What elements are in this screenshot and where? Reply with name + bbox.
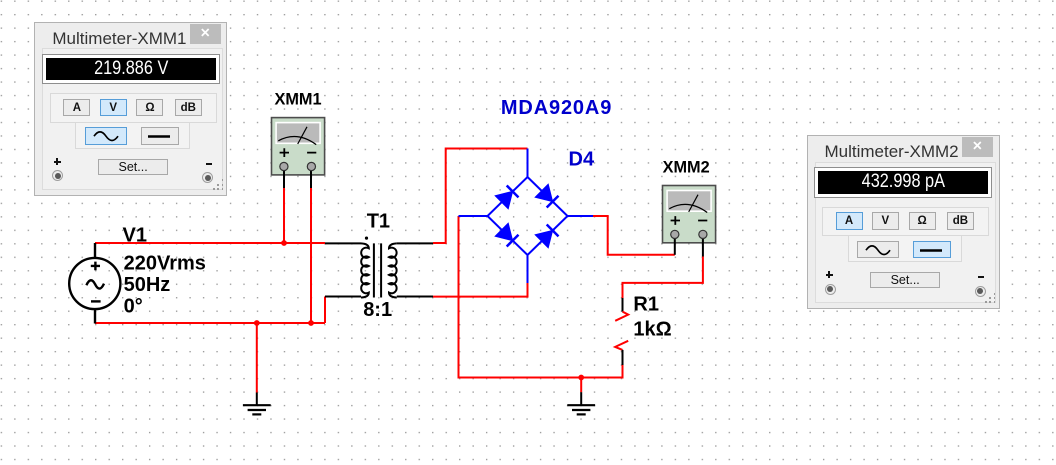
junction node at XMM1 - bbox=[308, 320, 314, 326]
wire: ground stub 2 bbox=[580, 378, 582, 393]
svg-text:50Hz: 50Hz bbox=[124, 274, 171, 296]
svg-text:MDA920A9: MDA920A9 bbox=[501, 97, 612, 119]
diode top-left of D4 bbox=[495, 191, 512, 208]
T1 primary coil bbox=[361, 243, 369, 297]
multimeter icon XMM2 bbox=[663, 186, 716, 257]
wire: V1 bottom rail to transformer primary bottom bbox=[95, 297, 325, 324]
bridge rectifier D4 bbox=[459, 149, 594, 284]
pin: XMM2 + bbox=[674, 236, 676, 255]
wire: bridge bottom to transformer secondary bottom bbox=[433, 283, 528, 297]
pin: T1 secondary top bbox=[397, 242, 433, 244]
pin: D4 left bbox=[459, 215, 488, 217]
resistor R1 bbox=[615, 298, 628, 365]
wire: transformer secondary top to bridge top bbox=[433, 149, 528, 244]
ac source V1 bbox=[69, 243, 120, 324]
pin: T1 primary bottom bbox=[325, 296, 361, 298]
pin: D4 bottom bbox=[527, 255, 529, 283]
pin: R1 bottom stub bbox=[622, 350, 624, 365]
wire: XMM1 - probe bbox=[310, 188, 312, 323]
svg-text:XMM2: XMM2 bbox=[663, 159, 710, 177]
wire: V1 top to transformer primary (net 1) bbox=[95, 242, 325, 244]
transformer T1 bbox=[325, 243, 433, 297]
T1 core bbox=[374, 243, 381, 297]
svg-text:8:1: 8:1 bbox=[363, 299, 392, 321]
diode bottom-right of D4 bbox=[535, 230, 552, 247]
wire: ground stub at bottom rail bbox=[256, 323, 258, 393]
pin: XMM2 - bbox=[702, 236, 704, 257]
junction node at XMM1 + bbox=[281, 240, 287, 246]
diode top-right of D4 bbox=[535, 184, 552, 201]
pin: XMM1 + bbox=[283, 168, 285, 188]
wire: XMM1 + probe bbox=[283, 188, 285, 243]
pin: XMM1 - bbox=[310, 168, 312, 188]
wire: bridge left (minus) down to bottom DC rail to R1 bottom bbox=[459, 216, 623, 378]
pin: T1 secondary bottom bbox=[397, 296, 433, 298]
svg-text:V1: V1 bbox=[123, 225, 147, 247]
diode bottom-left of D4 bbox=[495, 223, 512, 240]
svg-text:1kΩ: 1kΩ bbox=[633, 319, 671, 341]
pin: D4 top bbox=[527, 149, 529, 178]
junction node at ground 2 bbox=[578, 375, 584, 381]
wire: XMM2 - down to R1 top bbox=[623, 257, 703, 299]
R1 zigzag bottom (red) bbox=[615, 341, 628, 350]
pin: D4 right bbox=[568, 215, 594, 217]
T1 polarity dot bbox=[365, 237, 368, 240]
T1 secondary coil bbox=[389, 243, 397, 297]
svg-text:220Vrms: 220Vrms bbox=[124, 253, 206, 275]
wire: bridge right to XMM2 + bbox=[593, 216, 675, 255]
svg-text:T1: T1 bbox=[367, 210, 390, 232]
D4 diamond bbox=[488, 177, 568, 255]
junction node at ground 1 bbox=[254, 320, 260, 326]
svg-text:R1: R1 bbox=[633, 293, 659, 315]
R1 zigzag top (red) bbox=[615, 312, 628, 321]
ground 2 bbox=[567, 392, 595, 414]
instrument dialog XMM2 bbox=[807, 135, 1000, 309]
instrument dialog XMM1 bbox=[34, 22, 227, 196]
svg-text:0°: 0° bbox=[124, 295, 143, 317]
pin: R1 top stub bbox=[622, 298, 624, 312]
pin: T1 primary top bbox=[325, 242, 361, 244]
ground 1 bbox=[243, 393, 271, 415]
multimeter icon XMM1 bbox=[272, 118, 325, 188]
svg-text:XMM1: XMM1 bbox=[275, 91, 322, 109]
svg-text:D4: D4 bbox=[569, 149, 595, 171]
